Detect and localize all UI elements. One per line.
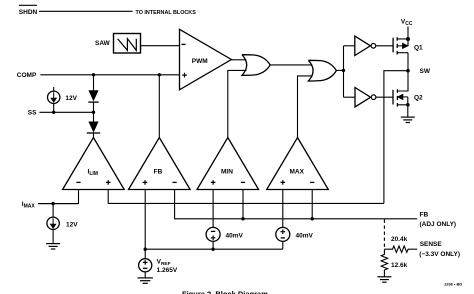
wire ILIM minus stub	[38, 190, 79, 204]
wire SAW to PWM minus	[141, 45, 180, 47]
ground below R2	[377, 277, 391, 282]
transistor Q2 (N-channel MOSFET)	[393, 89, 397, 106]
svg-text:SHDN: SHDN	[19, 9, 38, 16]
svg-text:Q2: Q2	[414, 95, 423, 102]
svg-text:12.6k: 12.6k	[391, 262, 408, 269]
wire COMP down to diode D1	[93, 75, 95, 91]
svg-text:Figure 2. Block Diagram: Figure 2. Block Diagram	[182, 290, 268, 294]
junction dot IMAX at current source	[51, 202, 54, 205]
source V2 40mV (MAX)	[276, 227, 290, 241]
wire OR2 output	[336, 69, 343, 71]
wire COMP to PWM plus	[40, 74, 179, 76]
wire IMAX	[38, 203, 78, 205]
svg-text:1.265V: 1.265V	[157, 267, 178, 274]
wire FB minus stub down to bus2	[175, 190, 418, 219]
svg-text:TO INTERNAL BLOCKS: TO INTERNAL BLOCKS	[136, 10, 197, 16]
svg-text:SS: SS	[28, 110, 37, 117]
node SENSE label	[419, 241, 460, 258]
comparator FB	[129, 138, 191, 190]
svg-text:40mV: 40mV	[296, 232, 314, 239]
wire MAX output up to OR2 input	[298, 76, 313, 138]
wire driver split vertical	[343, 46, 345, 97]
bus1 wire SW feedback to ILIM plus	[108, 202, 384, 204]
wire PWM output to OR1	[231, 59, 246, 61]
svg-text:MIN: MIN	[221, 168, 233, 175]
svg-text:(ADJ ONLY): (ADJ ONLY)	[420, 221, 457, 228]
wire MIN output up to OR1 input	[228, 70, 247, 137]
bus3 wire VREF to offset sources	[145, 248, 283, 250]
svg-text:(−3.3V ONLY): (−3.3V ONLY)	[419, 251, 460, 258]
wire MAX plus stub down to 40mV source	[282, 190, 284, 228]
node COMP label	[17, 72, 37, 79]
wire OR1 output to OR2	[270, 64, 312, 66]
comparator ILIM	[63, 138, 125, 190]
transistor Q1 (P-channel MOSFET)	[393, 37, 397, 54]
node SW	[406, 69, 410, 73]
junction dot SS at current source	[52, 111, 55, 114]
junction dot at driver split	[342, 69, 345, 72]
inverter U3 bottom driver	[355, 88, 371, 107]
svg-text:Q1: Q1	[414, 44, 423, 51]
node FB output label	[420, 212, 457, 229]
node SS label	[28, 110, 37, 117]
junction dot SS at diode chain	[92, 111, 95, 114]
svg-text:12V: 12V	[66, 222, 78, 229]
comparator PWM	[180, 29, 232, 90]
svg-text:COMP: COMP	[17, 72, 37, 79]
wire U2 to Q1 gate	[376, 45, 393, 47]
overline on SHDN	[19, 4, 37, 6]
wire MIN plus stub down to 40mV source	[212, 190, 214, 228]
node IMAX label	[22, 201, 36, 210]
svg-text:1266 • BD: 1266 • BD	[444, 282, 462, 287]
wire FB output up to COMP	[158, 75, 160, 138]
junction dot MIN minus on bus2	[241, 217, 244, 220]
junction dot VREF bus	[144, 248, 147, 251]
current source I1 12V (soft start)	[53, 87, 55, 92]
inverter U2 top driver	[355, 36, 371, 55]
wire VCC down	[407, 26, 409, 39]
svg-text:FB: FB	[420, 212, 429, 219]
svg-text:20.4k: 20.4k	[391, 236, 408, 243]
svg-text:40mV: 40mV	[226, 232, 244, 239]
oscillator box SAW	[114, 34, 141, 54]
comparator MIN	[197, 138, 259, 190]
source VREF 1.265V	[139, 259, 152, 272]
diode D1	[89, 91, 98, 101]
ground below VREF	[138, 278, 153, 283]
dashed wire FB to divider	[383, 220, 385, 250]
wire FB plus stub down to VREF	[144, 190, 146, 259]
svg-text:SW: SW	[420, 68, 431, 75]
wire MAX minus stub to bus2	[311, 190, 313, 219]
resistor R2 12.6k	[381, 249, 387, 277]
diode D2	[89, 122, 98, 132]
junction dot on COMP at diode branch	[92, 73, 95, 76]
current source I2 12V	[52, 204, 54, 218]
or-gate G2	[308, 60, 336, 81]
comparator MAX	[267, 138, 329, 190]
wire U3 to Q2 gate	[376, 96, 393, 98]
ground below I2	[46, 244, 60, 249]
caption Figure 2 Block Diagram (clipped)	[182, 290, 268, 294]
svg-text:FB: FB	[154, 168, 163, 175]
svg-text:MAX: MAX	[290, 168, 305, 175]
ground below Q2	[401, 117, 415, 122]
sawtooth waveform	[118, 39, 137, 51]
wire to bottom driver	[344, 96, 356, 98]
svg-text:SAW: SAW	[95, 40, 111, 47]
svg-text:SENSE: SENSE	[420, 241, 443, 248]
wire SHDN to internal blocks	[39, 10, 133, 12]
resistor R1 20.4k	[384, 246, 412, 252]
node SHDN label	[19, 9, 38, 16]
junction dot on COMP at FB output	[158, 73, 161, 76]
source V1 40mV (MIN)	[206, 227, 220, 241]
part number text	[444, 282, 462, 287]
node VCC label	[401, 19, 413, 28]
wire SS	[39, 111, 93, 113]
label TO INTERNAL BLOCKS	[136, 10, 197, 16]
or-gate G1	[242, 55, 270, 76]
wire ILIM plus stub to bus1	[107, 190, 109, 204]
wire to top driver	[344, 45, 355, 47]
wire MIN minus stub to bus2	[242, 190, 244, 219]
junction dot MAX minus on bus2	[311, 217, 314, 220]
wire SW to feedback line	[384, 71, 408, 204]
svg-text:12V: 12V	[65, 95, 77, 102]
svg-text:PWM: PWM	[192, 58, 208, 65]
